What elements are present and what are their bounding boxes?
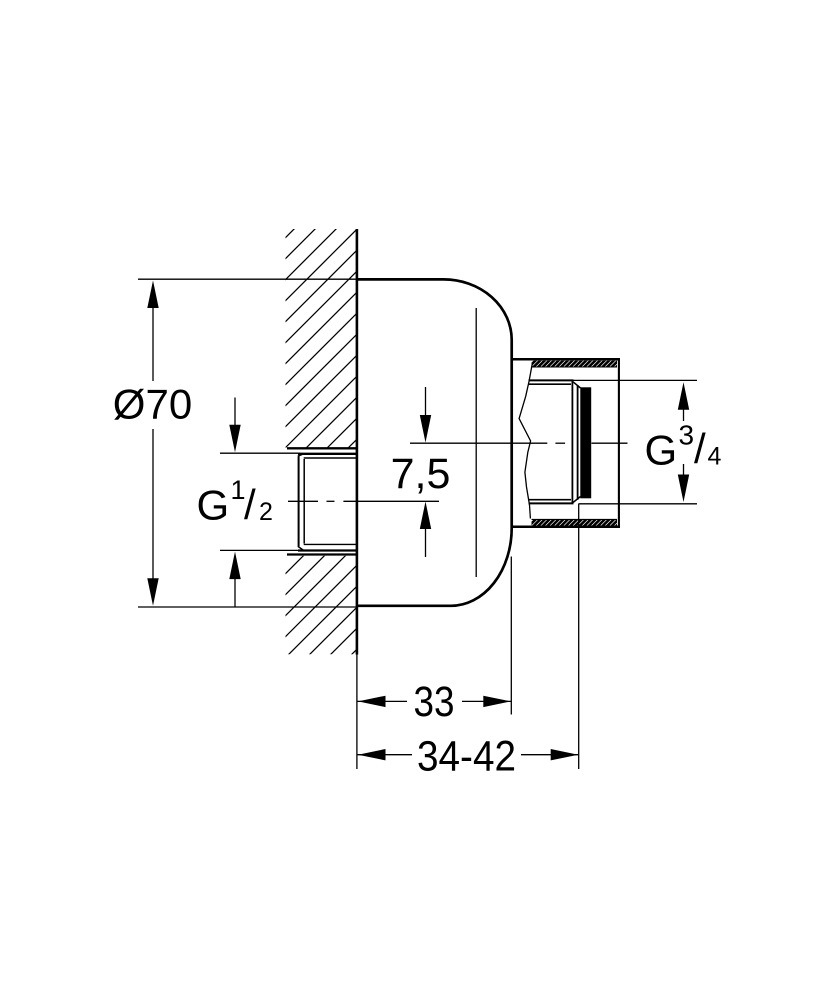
- svg-text:34-42: 34-42: [417, 733, 516, 781]
- wall hole top edge: [287, 447, 357, 449]
- svg-text:7,5: 7,5: [391, 450, 451, 498]
- svg-text:4: 4: [708, 443, 722, 471]
- svg-text:G: G: [197, 482, 230, 529]
- socket top thread lines: [529, 380, 581, 388]
- dimension Ø70 extension top: [138, 278, 357, 280]
- dimension G1/2 label: [197, 475, 273, 529]
- svg-text:Ø70: Ø70: [113, 381, 192, 428]
- dimension 7,5 arrows: [425, 387, 427, 557]
- dimension G3/4 arrows: [683, 408, 685, 476]
- break line (broken-out section): [519, 364, 532, 519]
- socket mouth face line inner: [577, 385, 579, 500]
- dimension 33 line: [358, 700, 512, 702]
- G1/2 pipe thread: [298, 454, 357, 551]
- gasket (seal): [580, 387, 591, 498]
- nut top knurl band: [524, 357, 645, 372]
- dimension 34-42 arrows: [358, 749, 386, 760]
- wall face line: [356, 229, 359, 655]
- dimension 34-42 left extension (wall face extended): [356, 655, 358, 770]
- svg-text:3: 3: [679, 420, 695, 451]
- nut top knurl band lower boundary: [532, 366, 618, 368]
- body outline (escutcheon): [357, 279, 512, 605]
- svg-text:2: 2: [259, 498, 273, 526]
- dimension Ø70 line and arrows: [152, 306, 154, 580]
- dimension 34-42 extension right: [578, 504, 580, 769]
- svg-text:/: /: [694, 425, 706, 472]
- dimension G3/4 extension top: [574, 379, 698, 381]
- dimension 33 extension right: [510, 557, 512, 715]
- dimension G3/4 label: [645, 420, 722, 474]
- dimension G3/4 extension bottom: [579, 503, 698, 505]
- svg-text:/: /: [244, 481, 256, 528]
- dimension 34-42 line: [358, 754, 579, 756]
- svg-text:G: G: [645, 426, 678, 473]
- wall hole bottom edge: [287, 553, 357, 555]
- outlet centerline: [410, 442, 628, 444]
- nut bottom knurl band upper boundary: [532, 518, 618, 520]
- body inner edge line: [475, 308, 477, 577]
- dimension 33 arrows: [358, 696, 386, 707]
- nut outline: [512, 358, 620, 528]
- socket bottom thread lines: [529, 497, 581, 504]
- dimension G1/2 extension top: [220, 452, 300, 454]
- svg-text:33: 33: [414, 678, 455, 726]
- dimension G1/2 arrows: [234, 398, 236, 608]
- wall hatching: [0, 220, 786, 700]
- nut bottom knurl band: [524, 516, 645, 531]
- G1/2 centerline: [288, 500, 439, 502]
- dimension G1/2 extension bottom: [220, 549, 300, 551]
- dimension Ø70 extension bottom: [138, 606, 357, 608]
- socket mouth face line outer: [571, 381, 573, 503]
